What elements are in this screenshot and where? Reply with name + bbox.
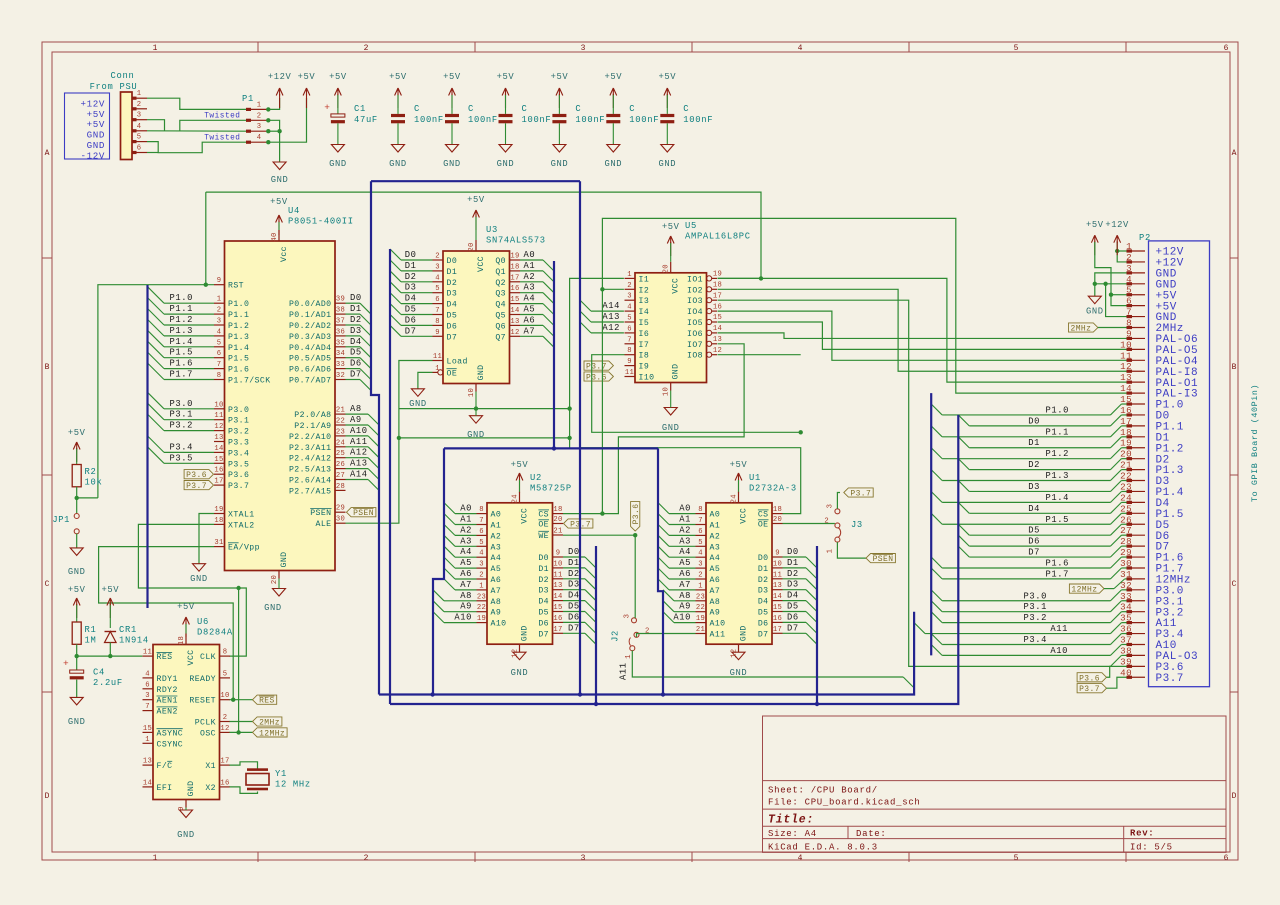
svg-text:A4: A4 <box>679 547 691 557</box>
svg-text:6: 6 <box>479 528 484 536</box>
svg-text:A6: A6 <box>710 576 721 585</box>
svg-text:15: 15 <box>510 296 519 304</box>
svg-text:33: 33 <box>1120 591 1132 602</box>
svg-text:37: 37 <box>1120 634 1132 645</box>
svg-text:CS: CS <box>538 511 549 520</box>
svg-text:A0: A0 <box>460 504 472 514</box>
svg-text:8: 8 <box>479 506 484 514</box>
svg-text:9: 9 <box>627 358 632 366</box>
svg-text:D6: D6 <box>350 359 362 369</box>
svg-text:A2: A2 <box>491 532 502 541</box>
svg-text:14: 14 <box>1120 383 1132 394</box>
svg-text:ALE: ALE <box>316 520 332 529</box>
svg-text:1: 1 <box>153 854 158 863</box>
svg-text:18: 18 <box>178 636 186 645</box>
svg-text:D2: D2 <box>538 576 549 585</box>
svg-text:P1.1: P1.1 <box>169 304 193 314</box>
svg-text:4: 4 <box>798 854 803 863</box>
svg-text:-12V: -12V <box>81 150 105 161</box>
svg-text:A14: A14 <box>350 470 368 480</box>
svg-text:4: 4 <box>257 134 262 142</box>
svg-text:M58725P: M58725P <box>530 483 572 493</box>
svg-text:A11: A11 <box>1050 624 1068 634</box>
svg-text:22: 22 <box>336 418 345 426</box>
svg-text:11: 11 <box>143 649 152 657</box>
svg-text:38: 38 <box>336 307 345 315</box>
svg-text:KiCad E.D.A. 8.0.3: KiCad E.D.A. 8.0.3 <box>768 843 878 853</box>
svg-text:P2.6/A14: P2.6/A14 <box>289 476 332 486</box>
svg-text:100nF: 100nF <box>683 115 713 125</box>
svg-text:5: 5 <box>217 339 222 347</box>
svg-text:P1.6: P1.6 <box>1045 558 1069 568</box>
svg-text:I3: I3 <box>639 297 650 306</box>
svg-text:A6: A6 <box>679 569 691 579</box>
svg-text:C4: C4 <box>93 668 105 678</box>
svg-text:+5V: +5V <box>1086 220 1104 230</box>
svg-text:A2: A2 <box>679 525 691 535</box>
svg-text:12: 12 <box>512 649 520 658</box>
svg-text:A9: A9 <box>350 415 362 425</box>
svg-text:A8: A8 <box>710 598 721 607</box>
svg-text:RES: RES <box>157 653 173 662</box>
svg-text:1: 1 <box>217 296 222 304</box>
svg-text:17: 17 <box>510 274 519 282</box>
svg-text:11: 11 <box>214 412 223 420</box>
svg-text:6: 6 <box>1224 44 1229 53</box>
svg-text:A2: A2 <box>524 272 536 282</box>
svg-text:32: 32 <box>336 372 345 380</box>
svg-text:3: 3 <box>257 123 262 131</box>
svg-text:WE: WE <box>538 532 549 541</box>
svg-text:15: 15 <box>1120 394 1132 405</box>
svg-text:CLK: CLK <box>200 653 216 662</box>
svg-text:4: 4 <box>435 274 440 282</box>
svg-text:B: B <box>1232 363 1237 372</box>
svg-text:2MHz: 2MHz <box>259 719 280 728</box>
svg-text:24: 24 <box>336 439 345 447</box>
svg-text:AEN1: AEN1 <box>157 697 178 706</box>
svg-text:26: 26 <box>1120 514 1132 525</box>
svg-text:IO6: IO6 <box>687 330 703 339</box>
svg-text:12MHz: 12MHz <box>259 729 285 738</box>
svg-text:31: 31 <box>214 539 223 547</box>
svg-text:35: 35 <box>1120 613 1132 624</box>
svg-text:GND: GND <box>280 552 289 568</box>
svg-text:C: C <box>1232 580 1237 589</box>
svg-text:D3: D3 <box>538 587 549 596</box>
svg-text:D5: D5 <box>1028 526 1040 536</box>
svg-text:10: 10 <box>663 387 671 396</box>
svg-text:16: 16 <box>773 615 782 623</box>
svg-text:U1: U1 <box>749 473 761 483</box>
svg-text:RES: RES <box>259 697 275 706</box>
svg-text:P1.5: P1.5 <box>1045 515 1069 525</box>
svg-text:A13: A13 <box>602 312 620 322</box>
svg-text:A7: A7 <box>460 580 472 590</box>
svg-text:A0: A0 <box>710 511 721 520</box>
svg-text:A8: A8 <box>350 404 362 414</box>
svg-text:VCC: VCC <box>187 650 196 666</box>
svg-text:D3: D3 <box>787 580 799 590</box>
svg-text:5: 5 <box>1014 44 1019 53</box>
svg-text:P1.0: P1.0 <box>169 293 193 303</box>
svg-text:20: 20 <box>773 516 782 524</box>
svg-text:10: 10 <box>553 560 562 568</box>
svg-text:Date:: Date: <box>856 829 887 839</box>
svg-text:5: 5 <box>698 539 703 547</box>
svg-text:19: 19 <box>1120 438 1132 449</box>
svg-text:2: 2 <box>824 518 829 526</box>
svg-text:A3: A3 <box>679 536 691 546</box>
svg-text:13: 13 <box>773 582 782 590</box>
svg-text:A13: A13 <box>350 459 368 469</box>
svg-text:25: 25 <box>1120 503 1132 514</box>
svg-text:AEN2: AEN2 <box>157 708 178 717</box>
svg-text:I5: I5 <box>639 319 650 328</box>
svg-text:A8: A8 <box>491 598 502 607</box>
svg-text:I2: I2 <box>639 286 650 295</box>
svg-text:Q3: Q3 <box>495 290 506 299</box>
svg-text:+5V: +5V <box>443 72 461 82</box>
svg-text:+5V: +5V <box>298 72 316 82</box>
svg-text:4: 4 <box>145 670 150 678</box>
svg-text:14: 14 <box>143 779 152 787</box>
svg-text:VCC: VCC <box>477 256 486 272</box>
svg-text:IO4: IO4 <box>687 308 703 317</box>
svg-text:9: 9 <box>217 277 222 285</box>
svg-text:5: 5 <box>435 285 440 293</box>
svg-text:3: 3 <box>217 318 222 326</box>
svg-text:A4: A4 <box>460 547 472 557</box>
svg-text:D2: D2 <box>447 279 458 288</box>
svg-text:D4: D4 <box>350 337 362 347</box>
svg-text:19: 19 <box>510 253 519 261</box>
svg-text:1: 1 <box>137 90 142 98</box>
svg-text:PSEN: PSEN <box>873 555 894 564</box>
svg-text:+: + <box>63 658 69 669</box>
svg-text:U6: U6 <box>197 617 209 627</box>
svg-text:+5V: +5V <box>68 585 86 595</box>
svg-text:13: 13 <box>510 318 519 326</box>
svg-text:4: 4 <box>1126 274 1132 285</box>
svg-text:P1.6: P1.6 <box>228 366 249 375</box>
svg-text:2: 2 <box>435 253 440 261</box>
svg-text:+5V: +5V <box>329 72 347 82</box>
svg-text:IO3: IO3 <box>687 297 703 306</box>
svg-text:P1.7/SCK: P1.7/SCK <box>228 376 271 386</box>
svg-text:EA/Vpp: EA/Vpp <box>228 543 260 553</box>
svg-text:U2: U2 <box>530 473 542 483</box>
svg-text:D3: D3 <box>350 326 362 336</box>
svg-text:39: 39 <box>336 296 345 304</box>
svg-text:P3.7: P3.7 <box>186 482 207 491</box>
svg-text:+5V: +5V <box>270 197 288 207</box>
svg-text:12 MHz: 12 MHz <box>275 780 311 790</box>
svg-text:A7: A7 <box>710 587 721 596</box>
svg-text:P2.3/A11: P2.3/A11 <box>289 443 332 453</box>
svg-text:1: 1 <box>827 549 835 554</box>
svg-text:P1.2: P1.2 <box>1045 449 1069 459</box>
svg-text:C: C <box>683 104 689 114</box>
svg-text:21: 21 <box>1120 460 1132 471</box>
svg-text:GND: GND <box>521 625 530 641</box>
svg-text:4: 4 <box>137 123 142 131</box>
svg-text:3: 3 <box>624 614 632 619</box>
svg-text:1: 1 <box>698 582 703 590</box>
svg-text:I6: I6 <box>639 330 650 339</box>
svg-text:D7: D7 <box>538 630 549 639</box>
svg-text:I1: I1 <box>639 275 650 284</box>
svg-text:P3.6: P3.6 <box>228 471 249 480</box>
svg-text:XTAL2: XTAL2 <box>228 521 255 530</box>
svg-text:10k: 10k <box>85 478 103 488</box>
svg-text:3: 3 <box>479 561 484 569</box>
svg-text:D: D <box>45 792 50 801</box>
svg-text:2: 2 <box>257 112 262 120</box>
svg-text:CR1: CR1 <box>119 625 137 635</box>
svg-text:D4: D4 <box>447 301 458 310</box>
svg-text:D1: D1 <box>787 558 799 568</box>
svg-text:D0: D0 <box>538 554 549 563</box>
svg-text:+5V: +5V <box>497 72 515 82</box>
svg-text:9: 9 <box>775 550 780 558</box>
svg-text:7: 7 <box>1126 307 1132 318</box>
svg-text:15: 15 <box>713 314 722 322</box>
svg-text:2: 2 <box>479 572 484 580</box>
svg-text:1: 1 <box>145 736 150 744</box>
svg-text:GND: GND <box>477 365 486 381</box>
svg-text:18: 18 <box>1120 427 1132 438</box>
svg-text:P0.0/AD0: P0.0/AD0 <box>289 299 332 309</box>
svg-text:40: 40 <box>1120 667 1132 678</box>
svg-text:D2: D2 <box>1028 460 1040 470</box>
svg-text:A3: A3 <box>491 543 502 552</box>
svg-text:D5: D5 <box>758 609 769 618</box>
svg-text:GND: GND <box>662 423 680 433</box>
svg-text:A8: A8 <box>679 591 691 601</box>
svg-text:A11: A11 <box>619 662 629 680</box>
svg-text:U3: U3 <box>486 225 498 235</box>
svg-text:To GPIB Board (40Pin): To GPIB Board (40Pin) <box>1250 384 1260 502</box>
svg-text:20: 20 <box>553 516 562 524</box>
svg-text:100nF: 100nF <box>468 115 498 125</box>
svg-text:D5: D5 <box>447 312 458 321</box>
svg-text:16: 16 <box>553 615 562 623</box>
svg-text:A10: A10 <box>491 620 507 629</box>
svg-text:Sheet: /CPU Board/: Sheet: /CPU Board/ <box>768 786 878 796</box>
svg-text:5: 5 <box>627 315 632 323</box>
svg-text:P2.2/A10: P2.2/A10 <box>289 432 332 442</box>
svg-text:OE: OE <box>447 369 458 378</box>
svg-text:D0: D0 <box>787 547 799 557</box>
svg-text:XTAL1: XTAL1 <box>228 511 255 520</box>
svg-text:Y1: Y1 <box>275 769 287 779</box>
svg-text:D0: D0 <box>405 250 417 260</box>
svg-text:GND: GND <box>511 668 529 678</box>
svg-text:P1.1: P1.1 <box>1045 427 1069 437</box>
svg-text:2MHz: 2MHz <box>1071 325 1092 334</box>
svg-text:2.2uF: 2.2uF <box>93 678 123 688</box>
svg-text:P0.7/AD7: P0.7/AD7 <box>289 376 332 386</box>
svg-text:Q2: Q2 <box>495 279 506 288</box>
svg-text:D2732A-3: D2732A-3 <box>749 483 797 493</box>
svg-text:20: 20 <box>1120 449 1132 460</box>
svg-text:A4: A4 <box>491 554 502 563</box>
svg-text:14: 14 <box>553 593 562 601</box>
svg-text:U4: U4 <box>288 206 300 216</box>
svg-text:12: 12 <box>1120 361 1132 372</box>
svg-text:GND: GND <box>497 159 515 169</box>
svg-text:+5V: +5V <box>177 602 195 612</box>
svg-text:GND: GND <box>1086 307 1104 317</box>
svg-text:3: 3 <box>145 692 150 700</box>
svg-text:P0.2/AD2: P0.2/AD2 <box>289 321 332 331</box>
svg-text:12: 12 <box>214 423 223 431</box>
svg-text:3: 3 <box>581 44 586 53</box>
svg-text:P1.0: P1.0 <box>228 300 249 309</box>
svg-text:EFI: EFI <box>157 784 173 793</box>
svg-text:16: 16 <box>214 467 223 475</box>
svg-text:D6: D6 <box>538 619 549 628</box>
svg-text:X1: X1 <box>205 762 216 771</box>
svg-text:Size: A4: Size: A4 <box>768 829 817 839</box>
svg-text:22: 22 <box>696 604 705 612</box>
svg-text:D3: D3 <box>405 283 417 293</box>
svg-text:+5V: +5V <box>511 460 529 470</box>
svg-text:J2: J2 <box>611 630 621 642</box>
svg-text:A9: A9 <box>491 609 502 618</box>
svg-text:P3.4: P3.4 <box>228 449 249 458</box>
svg-text:C: C <box>575 104 581 114</box>
svg-text:4: 4 <box>627 304 632 312</box>
svg-text:IO5: IO5 <box>687 319 703 328</box>
svg-text:IO1: IO1 <box>687 275 703 284</box>
svg-text:D1: D1 <box>568 558 580 568</box>
svg-text:A4: A4 <box>524 294 536 304</box>
svg-text:D7: D7 <box>758 630 769 639</box>
svg-text:A12: A12 <box>602 323 620 333</box>
svg-text:A1: A1 <box>491 522 502 531</box>
svg-text:VCC: VCC <box>672 278 681 294</box>
svg-text:100nF: 100nF <box>575 115 605 125</box>
svg-text:P3.7: P3.7 <box>586 363 607 372</box>
svg-text:Q0: Q0 <box>495 257 506 266</box>
svg-text:27: 27 <box>336 472 345 480</box>
svg-text:I4: I4 <box>639 308 650 317</box>
svg-text:100nF: 100nF <box>414 115 444 125</box>
svg-text:28: 28 <box>336 483 345 491</box>
svg-text:23: 23 <box>336 428 345 436</box>
svg-text:A11: A11 <box>710 631 726 640</box>
svg-text:D7: D7 <box>1028 548 1040 558</box>
svg-text:14: 14 <box>713 325 722 333</box>
svg-text:F/C: F/C <box>157 761 173 771</box>
svg-text:23: 23 <box>696 593 705 601</box>
svg-text:P2: P2 <box>1139 233 1151 243</box>
svg-text:14: 14 <box>510 307 519 315</box>
svg-text:+5V: +5V <box>101 585 119 595</box>
svg-text:P1.3: P1.3 <box>1045 471 1069 481</box>
svg-text:OE: OE <box>538 521 549 530</box>
svg-text:3: 3 <box>137 112 142 120</box>
svg-text:VCC: VCC <box>740 508 749 524</box>
svg-text:2: 2 <box>627 282 632 290</box>
svg-text:8: 8 <box>698 506 703 514</box>
svg-text:4: 4 <box>479 550 484 558</box>
svg-text:A6: A6 <box>524 315 536 325</box>
svg-text:P0.6/AD6: P0.6/AD6 <box>289 365 332 375</box>
svg-text:P0.1/AD1: P0.1/AD1 <box>289 310 332 320</box>
svg-text:P0.5/AD5: P0.5/AD5 <box>289 354 332 364</box>
svg-text:D7: D7 <box>787 623 799 633</box>
svg-text:4: 4 <box>798 44 803 53</box>
svg-text:D3: D3 <box>447 290 458 299</box>
svg-text:9: 9 <box>1126 328 1132 339</box>
svg-text:D3: D3 <box>758 587 769 596</box>
svg-text:9: 9 <box>435 329 440 337</box>
svg-text:P3.2: P3.2 <box>169 421 193 431</box>
svg-text:6: 6 <box>1224 854 1229 863</box>
svg-text:File: CPU_board.kicad_sch: File: CPU_board.kicad_sch <box>768 798 921 808</box>
svg-text:13: 13 <box>553 582 562 590</box>
svg-text:U5: U5 <box>685 221 697 231</box>
svg-text:GND: GND <box>389 159 407 169</box>
svg-text:D6: D6 <box>1028 537 1040 547</box>
svg-text:J3: J3 <box>851 520 863 530</box>
svg-text:2: 2 <box>645 628 650 636</box>
svg-text:GND: GND <box>604 159 622 169</box>
svg-text:P3.3: P3.3 <box>228 439 249 448</box>
svg-text:9: 9 <box>556 550 561 558</box>
svg-text:5: 5 <box>479 539 484 547</box>
svg-text:P2.5/A13: P2.5/A13 <box>289 465 332 475</box>
svg-text:P3.0: P3.0 <box>169 399 193 409</box>
svg-text:+12V: +12V <box>1105 220 1129 230</box>
svg-text:P3.5: P3.5 <box>228 460 249 469</box>
svg-text:PSEN: PSEN <box>353 509 374 518</box>
svg-text:8: 8 <box>223 649 228 657</box>
svg-text:P1.4: P1.4 <box>1045 493 1069 503</box>
svg-text:7: 7 <box>479 517 484 525</box>
svg-text:3: 3 <box>698 561 703 569</box>
svg-text:P1.7: P1.7 <box>169 370 193 380</box>
svg-text:7: 7 <box>145 703 150 711</box>
svg-text:From PSU: From PSU <box>90 82 138 92</box>
svg-text:A8: A8 <box>460 591 472 601</box>
svg-text:OE: OE <box>758 521 769 530</box>
svg-text:RDY1: RDY1 <box>157 675 178 684</box>
svg-text:5: 5 <box>137 134 142 142</box>
svg-text:22: 22 <box>477 604 486 612</box>
svg-text:3: 3 <box>581 854 586 863</box>
svg-text:X2: X2 <box>205 784 216 793</box>
svg-text:D4: D4 <box>568 591 580 601</box>
svg-text:P1.7: P1.7 <box>1045 569 1069 579</box>
svg-text:P3.0: P3.0 <box>1023 591 1047 601</box>
svg-text:34: 34 <box>336 350 345 358</box>
svg-text:2: 2 <box>223 714 228 722</box>
svg-text:7: 7 <box>217 361 222 369</box>
svg-text:GND: GND <box>187 781 196 797</box>
svg-text:D1: D1 <box>447 268 458 277</box>
svg-text:A10: A10 <box>710 620 726 629</box>
svg-text:I10: I10 <box>639 374 655 383</box>
svg-text:D0: D0 <box>568 547 580 557</box>
svg-text:D5: D5 <box>787 602 799 612</box>
svg-text:P3.7: P3.7 <box>850 490 871 499</box>
svg-text:+5V: +5V <box>87 109 105 120</box>
svg-text:20: 20 <box>468 242 476 251</box>
